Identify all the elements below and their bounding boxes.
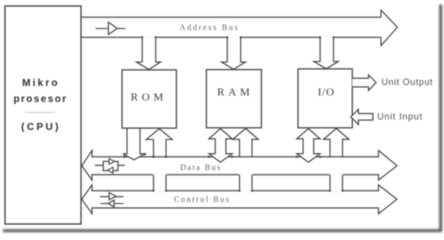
svg-text:Unit Input: Unit Input xyxy=(377,112,423,122)
svg-text:Mikro: Mikro xyxy=(22,78,60,89)
svg-text:Control Bus: Control Bus xyxy=(174,195,231,204)
svg-text:(CPU): (CPU) xyxy=(21,122,61,133)
svg-text:ROM: ROM xyxy=(131,91,167,103)
svg-text:I/O: I/O xyxy=(318,86,335,98)
svg-text:prosesor: prosesor xyxy=(14,94,68,105)
svg-text:Data Bus: Data Bus xyxy=(180,163,222,172)
svg-text:Unit Output: Unit Output xyxy=(382,77,434,87)
svg-text:Address Bus: Address Bus xyxy=(180,23,240,32)
svg-text:RAM: RAM xyxy=(217,86,253,98)
